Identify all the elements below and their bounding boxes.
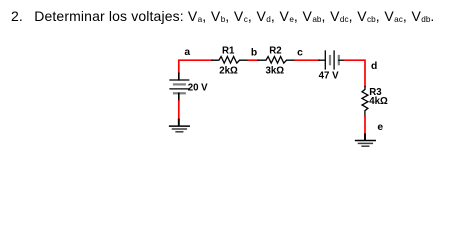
battery V2 long plate 2 [333, 51, 335, 69]
resistor R3 [362, 87, 368, 117]
battery V1 20 V : top stub [178, 73, 180, 80]
battery V1 bottom stub [178, 93, 180, 101]
ground GND2 bar 2 [359, 142, 373, 144]
resistor R1 [212, 57, 248, 64]
resistor R2 [258, 57, 295, 64]
ground GND2 bar 1 [356, 140, 376, 142]
wire: top-left corner a to R1 [179, 60, 212, 73]
wire: R2 to battery V2 [295, 59, 319, 61]
ground GND1 bar 1 [170, 125, 190, 127]
svg-text:47 V: 47 V [319, 70, 339, 81]
svg-text:a: a [184, 47, 190, 58]
svg-text:e: e [377, 122, 383, 133]
svg-text:c: c [297, 48, 303, 59]
battery V2 short plate 1 [329, 56, 331, 64]
wire: R1 to R2 [248, 59, 258, 61]
ground GND1 bar 2 [173, 128, 187, 130]
svg-text:b: b [251, 48, 257, 59]
wire: battery V2 to corner d, down to R3 [345, 60, 365, 86]
svg-text:3kΩ: 3kΩ [266, 66, 285, 77]
problem statement text [11, 8, 435, 24]
ground GND2 stub [364, 134, 366, 140]
battery V2 short plate 2 [338, 56, 340, 64]
svg-text:d: d [371, 61, 377, 72]
wire: battery V1 to ground GND1 [178, 101, 180, 120]
battery V1 long plate 2 [170, 88, 189, 90]
battery V1 short plate 1 [174, 83, 185, 85]
battery V2 47 V : left lead [319, 59, 325, 61]
battery V2 right lead [339, 59, 345, 61]
battery V2 long plate 1 [324, 51, 326, 69]
ground GND2 bar 3 [362, 145, 369, 147]
ground GND1 stub [178, 120, 180, 126]
battery V1 short plate 2 [174, 92, 185, 94]
svg-text:20 V: 20 V [188, 82, 208, 93]
svg-text:4kΩ: 4kΩ [369, 96, 388, 107]
wire: R3 to ground GND2 [364, 117, 366, 135]
svg-text:2kΩ: 2kΩ [219, 66, 238, 77]
ground GND1 bar 3 [176, 131, 183, 133]
svg-text:R1: R1 [222, 45, 235, 56]
svg-text:R2: R2 [269, 45, 281, 56]
battery V1 long plate 1 [170, 79, 189, 81]
